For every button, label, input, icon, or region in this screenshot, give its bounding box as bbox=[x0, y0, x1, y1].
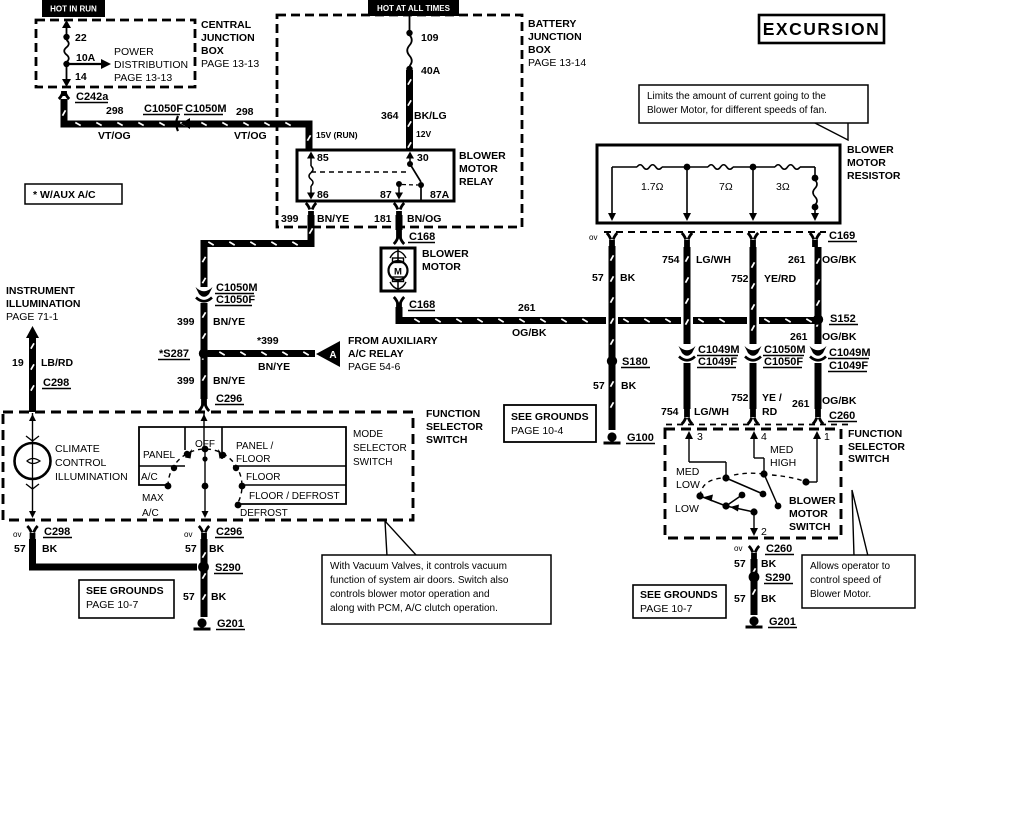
svg-text:*S287: *S287 bbox=[159, 348, 189, 360]
box SEE GROUNDS PAGE 10-4 bbox=[504, 405, 596, 442]
svg-text:298: 298 bbox=[106, 105, 124, 117]
svg-text:RELAY: RELAY bbox=[459, 176, 494, 188]
svg-text:control speed of: control speed of bbox=[810, 575, 881, 586]
relay coil pins 85/86 bbox=[307, 152, 315, 159]
svg-text:G201: G201 bbox=[217, 618, 244, 630]
svg-text:HOT IN RUN: HOT IN RUN bbox=[50, 5, 97, 14]
svg-text:40A: 40A bbox=[421, 65, 441, 77]
svg-text:controls blower motor operatio: controls blower motor operation and bbox=[330, 589, 490, 600]
svg-text:C1050F: C1050F bbox=[144, 103, 183, 115]
wire 57 BK C298 to S290 bbox=[33, 539, 198, 567]
svg-text:298: 298 bbox=[236, 106, 254, 118]
box Battery Junction Box (dashed) bbox=[277, 15, 522, 227]
svg-text:PANEL /: PANEL / bbox=[236, 441, 273, 452]
svg-text:C1049M: C1049M bbox=[698, 344, 740, 356]
svg-text:CLIMATE: CLIMATE bbox=[55, 443, 100, 455]
svg-text:OG/BK: OG/BK bbox=[822, 395, 857, 407]
svg-text:ov: ov bbox=[589, 233, 597, 242]
connector C169 flares bbox=[609, 240, 615, 247]
wire 181 BN/OG relay to blower motor bbox=[396, 215, 403, 230]
svg-text:57: 57 bbox=[14, 543, 26, 555]
note * W/AUX A/C bbox=[25, 184, 122, 204]
svg-text:PAGE 13-13: PAGE 13-13 bbox=[114, 72, 172, 84]
svg-text:399: 399 bbox=[281, 213, 299, 225]
relay pin 87 bbox=[396, 181, 402, 187]
splice S290 bbox=[198, 562, 209, 573]
contact PANEL bbox=[184, 451, 190, 457]
svg-text:SELECTOR: SELECTOR bbox=[426, 421, 483, 433]
contact OFF bbox=[202, 446, 209, 453]
svg-text:YE /: YE / bbox=[762, 392, 782, 404]
svg-text:MOTOR: MOTOR bbox=[422, 261, 461, 273]
svg-text:399: 399 bbox=[177, 316, 195, 328]
svg-text:SWITCH: SWITCH bbox=[848, 453, 889, 465]
wire 298 VT/OG from C242a to blower motor relay bbox=[64, 99, 309, 150]
svg-text:181: 181 bbox=[374, 213, 392, 225]
fuse 109 40A (BJB) bbox=[409, 16, 411, 33]
wire 19 LB/RD to instrument illumination bbox=[26, 326, 39, 338]
svg-text:DISTRIBUTION: DISTRIBUTION bbox=[114, 59, 188, 71]
svg-text:ILLUMINATION: ILLUMINATION bbox=[6, 298, 80, 310]
svg-text:Blower Motor, for different sp: Blower Motor, for different speeds of fa… bbox=[647, 105, 827, 116]
svg-text:261: 261 bbox=[788, 254, 806, 266]
blower switch pin 2 bbox=[753, 512, 755, 530]
svg-text:INSTRUMENT: INSTRUMENT bbox=[6, 285, 75, 297]
box SEE GROUNDS PAGE 10-7 (left) bbox=[79, 580, 174, 618]
resistor outputs arrows bbox=[611, 167, 613, 215]
blower switch pin 4 bbox=[750, 431, 758, 439]
svg-text:LOW: LOW bbox=[676, 479, 700, 491]
svg-text:BLOWER: BLOWER bbox=[789, 495, 836, 507]
svg-text:7Ω: 7Ω bbox=[719, 181, 733, 193]
svg-text:A/C: A/C bbox=[142, 508, 159, 519]
relay U1 Blower Motor Relay (box) bbox=[297, 150, 454, 201]
resistor 3 ohm bbox=[775, 165, 800, 170]
resistor bus bbox=[612, 166, 637, 168]
motor symbol bbox=[397, 249, 399, 260]
svg-text:1: 1 bbox=[824, 431, 830, 443]
svg-text:Limits the amount of current g: Limits the amount of current going to th… bbox=[647, 91, 826, 102]
svg-text:57: 57 bbox=[734, 593, 746, 605]
relay armature dashed link bbox=[311, 171, 408, 173]
svg-text:364: 364 bbox=[381, 110, 399, 122]
connector C242a bbox=[61, 91, 67, 96]
resistor 7 ohm bbox=[708, 165, 733, 170]
svg-text:MED: MED bbox=[770, 444, 794, 456]
svg-text:BK: BK bbox=[761, 558, 777, 570]
svg-text:MOTOR: MOTOR bbox=[847, 157, 886, 169]
connector at relay pin 87 (socket) bbox=[396, 211, 402, 217]
ground G201 (right) bbox=[749, 616, 758, 625]
svg-text:C298: C298 bbox=[44, 526, 70, 538]
svg-text:Allows operator to: Allows operator to bbox=[810, 561, 890, 572]
contact FLOOR bbox=[233, 465, 239, 471]
wire 399 BN/YE C1050 to S287 to C296 bbox=[201, 303, 208, 399]
svg-text:S152: S152 bbox=[830, 313, 856, 325]
svg-text:C169: C169 bbox=[829, 230, 855, 242]
svg-text:57: 57 bbox=[592, 272, 604, 284]
svg-text:C1050M: C1050M bbox=[185, 103, 227, 115]
svg-text:C168: C168 bbox=[409, 231, 435, 243]
svg-text:VT/OG: VT/OG bbox=[234, 130, 267, 142]
svg-text:SEE GROUNDS: SEE GROUNDS bbox=[86, 585, 164, 597]
svg-text:along with PCM, A/C clutch ope: along with PCM, A/C clutch operation. bbox=[330, 603, 498, 614]
svg-text:3Ω: 3Ω bbox=[776, 181, 790, 193]
svg-text:G100: G100 bbox=[627, 432, 654, 444]
svg-text:261: 261 bbox=[518, 302, 536, 314]
wire 261 OG/BK blower motor to S152 (horizontal) bbox=[399, 307, 606, 321]
svg-text:PAGE 10-7: PAGE 10-7 bbox=[640, 603, 692, 615]
svg-text:C1049F: C1049F bbox=[829, 360, 868, 372]
svg-text:BK: BK bbox=[621, 380, 637, 392]
blower switch links bbox=[726, 478, 763, 494]
svg-text:ov: ov bbox=[13, 530, 21, 539]
svg-text:10A: 10A bbox=[76, 52, 96, 64]
svg-text:MODE: MODE bbox=[353, 429, 383, 440]
svg-text:BN/YE: BN/YE bbox=[213, 316, 245, 328]
lamp climate control illumination bbox=[32, 413, 34, 442]
connector C260 flare (pin 3) bbox=[684, 409, 690, 417]
svg-text:SEE GROUNDS: SEE GROUNDS bbox=[640, 589, 718, 601]
svg-text:OG/BK: OG/BK bbox=[822, 331, 857, 343]
svg-text:FLOOR / DEFROST: FLOOR / DEFROST bbox=[249, 491, 340, 502]
wire 57 BK C296 to G201 bbox=[201, 539, 208, 617]
svg-text:C1049M: C1049M bbox=[829, 347, 871, 359]
splice S152 bbox=[813, 314, 823, 324]
svg-text:A: A bbox=[329, 350, 336, 361]
connector C168 (bottom of blower motor) bbox=[396, 303, 402, 309]
svg-text:754: 754 bbox=[661, 406, 679, 418]
svg-text:BK/LG: BK/LG bbox=[414, 110, 447, 122]
svg-text:57: 57 bbox=[185, 543, 197, 555]
svg-text:C1049F: C1049F bbox=[698, 356, 737, 368]
svg-text:1.7Ω: 1.7Ω bbox=[641, 181, 664, 193]
svg-text:MOTOR: MOTOR bbox=[789, 508, 828, 520]
note bubble: allows operator bbox=[852, 490, 868, 556]
svg-text:752: 752 bbox=[731, 273, 749, 285]
svg-text:M: M bbox=[394, 267, 402, 278]
box Central Junction Box (dashed) bbox=[36, 20, 195, 87]
svg-text:C242a: C242a bbox=[76, 91, 109, 103]
title EXCURSION bbox=[759, 15, 884, 43]
svg-text:C296: C296 bbox=[216, 393, 242, 405]
svg-text:BN/OG: BN/OG bbox=[407, 213, 441, 225]
svg-text:19: 19 bbox=[12, 357, 24, 369]
svg-text:752: 752 bbox=[731, 392, 749, 404]
svg-text:JUNCTION: JUNCTION bbox=[528, 31, 582, 43]
contact small below OFF bbox=[202, 456, 207, 461]
connector C260 flare (pin 1) bbox=[815, 409, 821, 417]
svg-text:BN/YE: BN/YE bbox=[258, 361, 290, 373]
svg-text:A/C RELAY: A/C RELAY bbox=[348, 348, 404, 360]
splice S180 bbox=[607, 356, 617, 366]
wire 399 BN/YE relay to C296 bbox=[204, 215, 311, 287]
svg-text:PAGE 13-14: PAGE 13-14 bbox=[528, 57, 586, 69]
note bubble: vacuum valves bbox=[385, 521, 417, 556]
svg-text:ILLUMINATION: ILLUMINATION bbox=[55, 471, 128, 483]
svg-text:BATTERY: BATTERY bbox=[528, 18, 576, 30]
svg-text:BLOWER: BLOWER bbox=[847, 144, 894, 156]
svg-text:C168: C168 bbox=[409, 299, 435, 311]
svg-text:S290: S290 bbox=[215, 562, 241, 574]
svg-text:OG/BK: OG/BK bbox=[512, 327, 547, 339]
svg-text:SWITCH: SWITCH bbox=[426, 434, 467, 446]
svg-text:261: 261 bbox=[790, 331, 808, 343]
svg-text:C298: C298 bbox=[43, 377, 69, 389]
svg-text:BK: BK bbox=[211, 591, 227, 603]
connector at relay pin 86 (socket) bbox=[308, 211, 314, 217]
ground G100 bbox=[607, 432, 616, 441]
svg-text:PANEL: PANEL bbox=[143, 450, 175, 461]
relay switch pin 30 bbox=[406, 152, 414, 159]
svg-text:Blower Motor.: Blower Motor. bbox=[810, 589, 871, 600]
svg-text:G201: G201 bbox=[769, 616, 796, 628]
svg-text:SELECTOR: SELECTOR bbox=[848, 441, 905, 453]
svg-text:BLOWER: BLOWER bbox=[422, 248, 469, 260]
svg-text:function of system air doors.: function of system air doors. Switch als… bbox=[330, 575, 509, 586]
svg-text:CENTRAL: CENTRAL bbox=[201, 19, 252, 31]
svg-text:C296: C296 bbox=[216, 526, 242, 538]
svg-text:754: 754 bbox=[662, 254, 680, 266]
svg-text:ov: ov bbox=[184, 530, 192, 539]
svg-text:4: 4 bbox=[761, 431, 767, 443]
svg-text:BOX: BOX bbox=[201, 45, 224, 57]
resistor 1.7 ohm bbox=[637, 165, 662, 170]
svg-text:109: 109 bbox=[421, 32, 439, 44]
node at 687 bbox=[684, 164, 691, 171]
svg-text:399: 399 bbox=[177, 375, 195, 387]
svg-text:57: 57 bbox=[734, 558, 746, 570]
svg-text:HIGH: HIGH bbox=[770, 457, 796, 469]
node at 753 bbox=[750, 164, 757, 171]
thermal limiter bbox=[814, 167, 816, 177]
splice S287 bbox=[199, 348, 209, 358]
connector C1049M C1049F (wire 261) bbox=[810, 346, 827, 356]
svg-text:ov: ov bbox=[734, 544, 742, 553]
splice S290 (right) bbox=[749, 572, 760, 583]
svg-text:261: 261 bbox=[792, 398, 810, 410]
svg-text:BK: BK bbox=[620, 272, 636, 284]
contact A/C bbox=[171, 465, 177, 471]
svg-text:87A: 87A bbox=[430, 189, 450, 201]
wire 364 BK/LG fuse to relay pin 30 bbox=[406, 70, 413, 150]
box SEE GROUNDS PAGE 10-7 (right) bbox=[633, 585, 726, 618]
svg-text:87: 87 bbox=[380, 189, 392, 201]
svg-text:EXCURSION: EXCURSION bbox=[763, 19, 881, 39]
svg-text:SEE GROUNDS: SEE GROUNDS bbox=[511, 411, 589, 423]
svg-text:BK: BK bbox=[42, 543, 58, 555]
svg-text:SELECTOR: SELECTOR bbox=[353, 443, 407, 454]
motor M1 Blower Motor (box) bbox=[381, 248, 415, 291]
svg-text:30: 30 bbox=[417, 152, 429, 164]
mode switch rotary contacts bbox=[168, 449, 242, 505]
box Function Selector Switch - mode (dashed) bbox=[3, 412, 413, 520]
box Function Selector Switch - blower (dashed) bbox=[665, 429, 841, 538]
svg-text:PAGE 54-6: PAGE 54-6 bbox=[348, 361, 400, 373]
svg-text:C260: C260 bbox=[766, 543, 792, 555]
svg-text:MAX: MAX bbox=[142, 493, 164, 504]
contact PANEL/FLOOR bbox=[220, 452, 226, 458]
svg-text:BOX: BOX bbox=[528, 44, 551, 56]
svg-text:POWER: POWER bbox=[114, 46, 154, 58]
mode selector switch housing bbox=[139, 427, 346, 504]
svg-text:MOTOR: MOTOR bbox=[459, 163, 498, 175]
wire 261 OG/BK resistor to switch pin 1 bbox=[815, 247, 822, 344]
svg-text:HOT AT ALL TIMES: HOT AT ALL TIMES bbox=[377, 4, 451, 13]
svg-text:FROM AUXILIARY: FROM AUXILIARY bbox=[348, 335, 438, 347]
note bubble: limits current bbox=[813, 122, 848, 140]
svg-text:FLOOR: FLOOR bbox=[246, 472, 280, 483]
wire 752 YE/RD resistor to switch pin 4 bbox=[750, 247, 757, 344]
svg-text:PAGE 13-13: PAGE 13-13 bbox=[201, 58, 259, 70]
svg-text:22: 22 bbox=[75, 32, 87, 44]
svg-text:FUNCTION: FUNCTION bbox=[848, 428, 902, 440]
label HOT AT ALL TIMES bbox=[368, 0, 459, 16]
svg-text:15V (RUN): 15V (RUN) bbox=[316, 130, 358, 140]
blower switch pin 1 bbox=[813, 431, 821, 439]
connector C260 flare (pin 4) bbox=[750, 409, 756, 417]
resistor block R1 Blower Motor Resistor (box) bbox=[597, 145, 840, 223]
svg-text:S180: S180 bbox=[622, 356, 648, 368]
svg-text:With Vacuum Valves, it control: With Vacuum Valves, it controls vacuum bbox=[330, 561, 507, 572]
svg-text:BK: BK bbox=[209, 543, 225, 555]
svg-text:FLOOR: FLOOR bbox=[236, 454, 270, 465]
off-page arrow A from auxiliary A/C relay bbox=[316, 341, 340, 367]
wire 754 LG/WH resistor to switch pin 3 bbox=[684, 247, 691, 344]
blower switch rotary dashed arc bbox=[700, 473, 806, 496]
svg-text:FUNCTION: FUNCTION bbox=[426, 408, 480, 420]
svg-text:86: 86 bbox=[317, 189, 329, 201]
svg-text:LG/WH: LG/WH bbox=[694, 406, 729, 418]
svg-text:BK: BK bbox=[761, 593, 777, 605]
svg-text:LG/WH: LG/WH bbox=[696, 254, 731, 266]
svg-text:C1050F: C1050F bbox=[216, 294, 255, 306]
svg-text:LB/RD: LB/RD bbox=[41, 357, 73, 369]
svg-text:12V: 12V bbox=[416, 129, 431, 139]
wire 57 BK resistor to G100 bbox=[609, 246, 616, 430]
svg-text:BLOWER: BLOWER bbox=[459, 150, 506, 162]
wire 57 BK C260 to G201 bbox=[751, 559, 758, 615]
relay pin 87A bbox=[420, 185, 422, 201]
label HOT IN RUN bbox=[42, 0, 105, 17]
arrow to power distribution bbox=[67, 63, 103, 65]
svg-text:2: 2 bbox=[761, 526, 767, 538]
svg-text:A/C: A/C bbox=[141, 472, 158, 483]
ground G201 (left) bbox=[197, 618, 206, 627]
blower switch contacts bbox=[722, 474, 729, 481]
svg-text:SWITCH: SWITCH bbox=[789, 521, 830, 533]
svg-text:85: 85 bbox=[317, 152, 329, 164]
connector C1050M C1050F (wire 752) bbox=[745, 346, 762, 356]
fuse F22 10A (CJB) bbox=[66, 23, 68, 40]
svg-text:C260: C260 bbox=[829, 410, 855, 422]
connector C1049M C1049F (wire 754) bbox=[679, 346, 696, 356]
svg-text:3: 3 bbox=[697, 431, 703, 443]
contact FLOOR/DEFROST bbox=[239, 483, 246, 490]
relay movable contact bbox=[410, 164, 421, 182]
svg-text:57: 57 bbox=[183, 591, 195, 603]
mode switch wiper bbox=[202, 483, 209, 490]
svg-text:C1050F: C1050F bbox=[764, 356, 803, 368]
svg-text:*399: *399 bbox=[257, 335, 279, 347]
svg-text:PAGE 10-7: PAGE 10-7 bbox=[86, 599, 138, 611]
svg-text:DEFROST: DEFROST bbox=[240, 508, 288, 519]
svg-text:PAGE 71-1: PAGE 71-1 bbox=[6, 311, 58, 323]
contact DEFROST bbox=[235, 502, 242, 509]
svg-text:LOW: LOW bbox=[675, 503, 699, 515]
svg-text:C1050M: C1050M bbox=[764, 344, 806, 356]
svg-text:SWITCH: SWITCH bbox=[353, 457, 392, 468]
svg-text:YE/RD: YE/RD bbox=[764, 273, 797, 285]
svg-text:C1050M: C1050M bbox=[216, 282, 258, 294]
contact MAX A/C bbox=[165, 483, 172, 490]
svg-text:VT/OG: VT/OG bbox=[98, 130, 131, 142]
svg-text:JUNCTION: JUNCTION bbox=[201, 32, 255, 44]
connector C169 dashed line bbox=[604, 231, 826, 233]
svg-text:BN/YE: BN/YE bbox=[317, 213, 349, 225]
svg-text:14: 14 bbox=[75, 71, 87, 83]
connector C260 dashed line bbox=[666, 424, 853, 426]
wire *399 BN/YE to auxiliary AC relay bbox=[208, 350, 315, 357]
svg-text:57: 57 bbox=[593, 380, 605, 392]
connector C168 (top of blower motor) bbox=[396, 228, 402, 238]
svg-text:* W/AUX A/C: * W/AUX A/C bbox=[33, 189, 96, 201]
svg-text:CONTROL: CONTROL bbox=[55, 457, 106, 469]
svg-text:RD: RD bbox=[762, 406, 778, 418]
svg-text:OG/BK: OG/BK bbox=[822, 254, 857, 266]
connector C1050M C1050F inline bbox=[196, 287, 213, 297]
svg-text:MED: MED bbox=[676, 466, 700, 478]
svg-text:S290: S290 bbox=[765, 572, 791, 584]
svg-text:RESISTOR: RESISTOR bbox=[847, 170, 901, 182]
svg-text:BN/YE: BN/YE bbox=[213, 375, 245, 387]
blower switch pin 3 bbox=[685, 431, 693, 439]
svg-text:PAGE 10-4: PAGE 10-4 bbox=[511, 425, 563, 437]
